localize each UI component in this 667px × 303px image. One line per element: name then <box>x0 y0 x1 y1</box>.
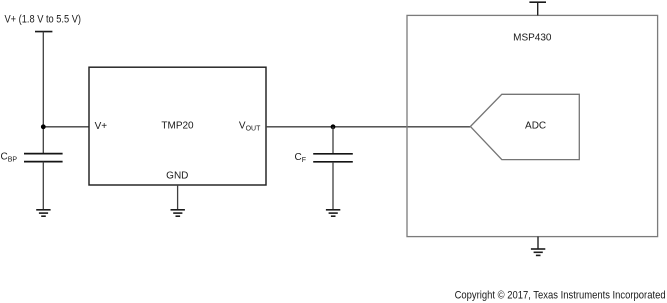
power symbol V+ rail bar <box>35 31 52 33</box>
ground below CBP <box>36 210 50 216</box>
ground below CF <box>326 210 340 216</box>
svg-text:GND: GND <box>166 170 188 181</box>
IC MSP430 box <box>407 15 658 236</box>
wire V+ node to TMP20 V+ pin <box>43 126 89 128</box>
capacitor CBP plates <box>24 153 63 155</box>
wire V+ rail vertical <box>42 32 44 154</box>
svg-text:ADC: ADC <box>525 121 546 132</box>
wire MSP430 ground stem <box>537 237 539 249</box>
IC TMP20 box <box>89 67 266 185</box>
block ADC pentagon <box>470 94 579 159</box>
svg-text:V+ (1.8 V to 5.5 V): V+ (1.8 V to 5.5 V) <box>5 13 82 25</box>
svg-text:V+: V+ <box>95 121 108 132</box>
node junction dot at V+ <box>41 124 46 129</box>
ground below MSP430 <box>531 249 545 255</box>
svg-text:MSP430: MSP430 <box>513 33 552 44</box>
wire MSP430 power stem <box>537 2 539 15</box>
capacitor CF plates <box>313 153 353 155</box>
node junction dot at CF <box>331 124 336 129</box>
svg-text:Copyright © 2017, Texas Instru: Copyright © 2017, Texas Instruments Inco… <box>455 290 666 302</box>
ground below TMP20 <box>171 210 185 216</box>
wire CBP to ground <box>42 162 44 210</box>
wire VOUT to MSP430 / ADC <box>266 126 470 128</box>
wire TMP20 GND pin down <box>177 185 179 210</box>
wire CF node down <box>332 127 334 154</box>
svg-text:TMP20: TMP20 <box>161 120 194 131</box>
power symbol bar above MSP430 <box>529 1 546 3</box>
wire CF to ground <box>332 162 334 210</box>
